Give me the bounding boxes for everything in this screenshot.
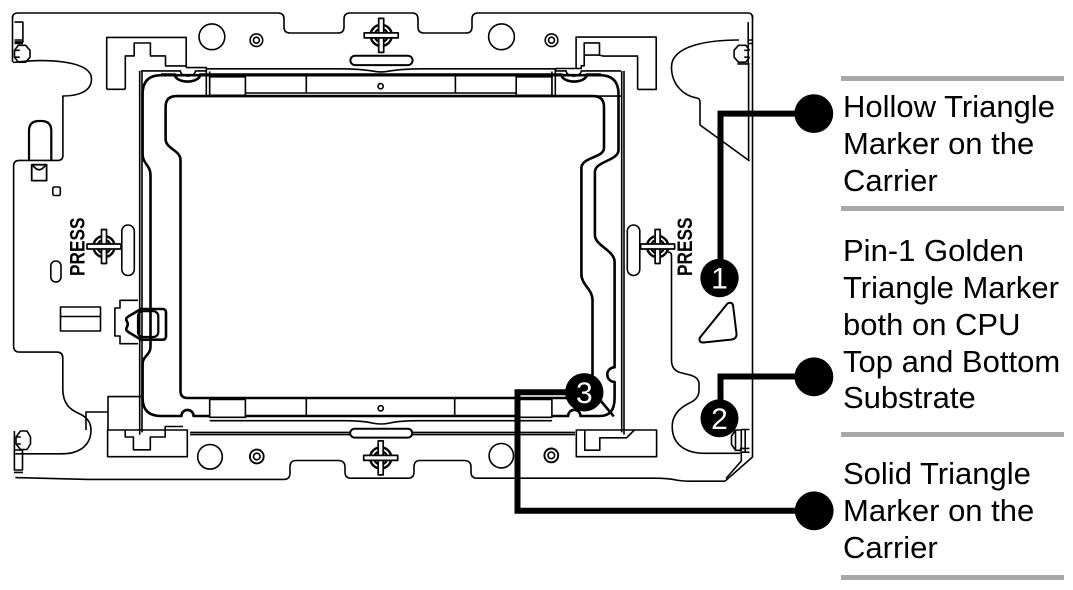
bottom band dividers <box>306 398 454 417</box>
top-left keeper box <box>107 37 187 89</box>
bottom-left keeper box <box>108 430 188 457</box>
top-right hex bolt <box>734 45 750 62</box>
top-right keeper box <box>576 37 656 89</box>
bottom-right small double circle <box>544 449 558 463</box>
callout line 3 <box>518 392 814 511</box>
svg-text:3: 3 <box>576 377 593 410</box>
bottom-right big circle <box>489 444 513 468</box>
bottom-right wing inner diagonal <box>726 452 741 478</box>
bottom-right hex bolt <box>732 430 742 450</box>
svg-text:2: 2 <box>711 403 728 436</box>
caption 3 <box>843 456 1073 566</box>
bottom-left hex bolt <box>16 431 31 450</box>
callout ball 3 <box>565 373 603 411</box>
bottom-right keeper inner shape <box>585 430 635 450</box>
left V-notch box <box>32 165 47 181</box>
bottom band left tab rect <box>210 400 246 418</box>
bottom band pinhole <box>378 406 383 411</box>
top-left small double circle <box>250 34 263 47</box>
top band right tab rect <box>516 77 552 96</box>
callout line 1 <box>721 114 814 260</box>
callout dot 3 <box>795 491 834 530</box>
top flexure thick edge with hinge dips <box>161 75 601 82</box>
svg-text:PRESS: PRESS <box>673 218 697 277</box>
carrier opening rim right double line <box>622 71 624 435</box>
bottom-right keeper box <box>576 430 656 457</box>
top rim thin line with hinge dips <box>141 71 621 76</box>
svg-text:1: 1 <box>711 263 728 296</box>
bottom alignment crosshair <box>364 441 398 475</box>
carrier bottom edge with steps <box>15 461 725 482</box>
left latch step bracket <box>115 300 138 343</box>
caption 1 <box>843 89 1073 199</box>
top-right big circle <box>489 24 515 50</box>
left latch blob inner <box>138 311 158 337</box>
caption 2 <box>843 233 1073 417</box>
svg-text:PRESS: PRESS <box>65 218 89 277</box>
bottom-left plate <box>14 431 23 472</box>
bottom-left big circle <box>198 445 223 470</box>
left crosshair <box>87 230 121 264</box>
right ear lobe and diagonal <box>672 40 750 161</box>
carrier right outer edge <box>725 16 753 481</box>
hollow triangle marker <box>699 303 736 343</box>
left latch blob outer <box>126 309 166 340</box>
callout dot 2 <box>795 357 834 396</box>
bottom slot <box>350 429 412 438</box>
top-left keeper steps <box>125 43 206 89</box>
top band bottom line right segment <box>593 95 621 97</box>
left small square <box>53 187 61 196</box>
carrier outer top edge with two recesses <box>13 13 753 33</box>
top band left tab rect <box>210 77 246 96</box>
bottom-right plate <box>740 430 750 454</box>
callout ball 1 <box>700 259 738 297</box>
top-left hex bolt <box>15 45 31 62</box>
top alignment crosshair <box>364 18 398 52</box>
carrier opening rim left double line <box>140 71 142 435</box>
separator 4 <box>841 575 1064 580</box>
top band walls and dividers <box>206 69 555 96</box>
right pocket interior edge <box>668 252 740 453</box>
top-right corner plate <box>737 22 752 160</box>
separator 2 <box>841 206 1064 211</box>
left keeper box mid <box>61 307 101 331</box>
flexure outer frame <box>143 75 619 416</box>
carrier left outer edge with ear lobe <box>13 16 92 454</box>
right vertical slot <box>627 225 640 276</box>
separator 1 <box>841 76 1064 81</box>
top band pinhole <box>378 84 383 89</box>
top slot <box>350 56 412 65</box>
top-right keeper inner shape <box>556 43 638 90</box>
left rounded-top tab <box>29 121 51 160</box>
top band upper lines with bulge <box>206 69 555 72</box>
separator 3 <box>841 432 1064 437</box>
callout line 2 <box>721 377 814 401</box>
bottom-left keeper inner shape <box>125 427 183 450</box>
top-left corner plate <box>15 22 23 43</box>
bottom band extra line with bulge <box>210 421 552 424</box>
callout ball 2 <box>701 399 739 437</box>
flexure inner frame <box>166 96 614 416</box>
carrier opening rim bottom line <box>190 432 575 434</box>
top-right small double circle <box>545 34 558 47</box>
left vertical slot <box>122 225 135 276</box>
left small slot <box>51 261 61 282</box>
right crosshair <box>641 230 675 264</box>
top band lower line <box>245 92 516 94</box>
bottom-left small double circle <box>250 450 264 464</box>
top-left big circle <box>199 24 225 50</box>
bottom band right tab rect <box>516 400 552 418</box>
callout dot 1 <box>794 94 833 133</box>
bottom-left staircase <box>86 397 142 430</box>
